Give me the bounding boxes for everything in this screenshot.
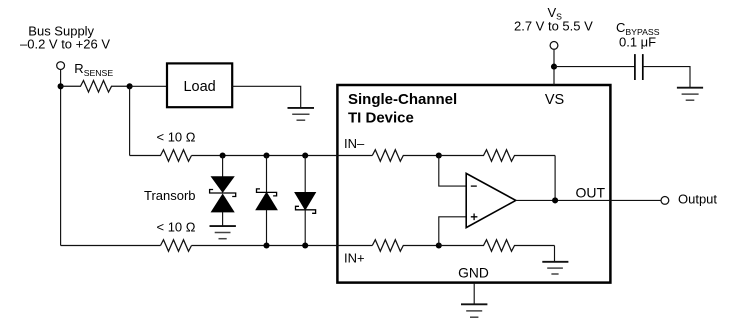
wire: diode D2 bottom lead — [266, 210, 268, 246]
transorb TVS: bottom diode triangle — [211, 194, 234, 212]
wire: transorb top lead — [222, 156, 224, 177]
ground: bypass cap ground — [677, 88, 703, 101]
resistor: < 10 ohm series (IN-) — [130, 150, 192, 162]
wire: diode D2 top lead — [266, 156, 268, 193]
wire: VS node to bypass cap — [554, 66, 635, 68]
junction: VS / bypass cap — [551, 64, 557, 70]
component: Single-Channel TI Device box — [337, 85, 610, 283]
wire: feedback down to output node — [554, 156, 556, 201]
svg-text:< 10 Ω: < 10 Ω — [157, 130, 196, 145]
terminal: Output — [661, 197, 669, 205]
resistor R_SENSE — [61, 81, 130, 93]
svg-text:0.1 μF: 0.1 μF — [619, 35, 656, 50]
wire: Load to ground — [232, 86, 301, 107]
junction: IN- / diode D2 — [263, 152, 269, 158]
svg-text:VS: VS — [545, 92, 564, 108]
wire: bias resistor down to ground — [554, 246, 556, 262]
junction: IN- / transorb — [220, 152, 226, 158]
component: Load box — [167, 63, 232, 107]
wire: sense node down to IN- line — [129, 86, 131, 155]
wire: GND pin to ground — [473, 283, 475, 304]
diode D3: triangle (pointing down) — [295, 192, 316, 209]
ground: transorb ground — [210, 226, 236, 239]
svg-text:IN–: IN– — [344, 136, 365, 151]
junction: IN+ / diode D3 — [302, 242, 308, 248]
resistor: < 10 ohm series (IN+) — [161, 240, 192, 252]
svg-text:RSENSE: RSENSE — [74, 61, 113, 78]
terminal: bus supply input — [57, 62, 65, 70]
junction: output node — [552, 197, 558, 203]
capacitor C_BYPASS plates — [635, 54, 643, 80]
svg-text:2.7 V to 5.5 V: 2.7 V to 5.5 V — [514, 19, 593, 34]
terminal: VS supply input — [550, 42, 558, 50]
wire: transorb to ground — [222, 212, 224, 226]
svg-text:Transorb: Transorb — [144, 188, 196, 203]
svg-text:< 10 Ω: < 10 Ω — [157, 220, 196, 235]
svg-text:TI Device: TI Device — [348, 110, 414, 127]
junction: IN- / diode D3 — [302, 152, 308, 158]
wire: IN- line into device — [192, 155, 373, 157]
ground: device GND — [461, 304, 487, 317]
wire: to Load box — [130, 85, 167, 87]
wire: inverting node down to op-amp - input — [439, 156, 466, 187]
wire: diode D3 bottom lead — [304, 210, 306, 246]
svg-text:Single-Channel: Single-Channel — [348, 91, 457, 108]
transorb TVS: top diode triangle — [211, 177, 234, 193]
wire: op-amp output to OUT pin — [516, 199, 611, 201]
diode D2: triangle (pointing up) — [256, 192, 277, 209]
svg-text:GND: GND — [458, 265, 489, 280]
svg-text:Load: Load — [183, 79, 215, 95]
resistor: IN- internal input resistor — [372, 150, 439, 162]
svg-text:IN+: IN+ — [344, 250, 365, 265]
transorb TVS: zener bar — [210, 190, 236, 197]
diode D3: zener bar — [296, 206, 316, 213]
ground: internal bias ground — [542, 262, 568, 274]
junction: R_SENSE / Load / IN- branch — [127, 83, 133, 89]
wire: bus left rail — [60, 70, 62, 246]
wire: non-inverting node up to op-amp + input — [439, 217, 466, 246]
op-amp U1: minus sign — [471, 185, 477, 187]
wire: OUT pin to output terminal — [611, 199, 661, 201]
svg-text:–0.2 V to +26 V: –0.2 V to +26 V — [20, 37, 110, 52]
ground: load ground — [288, 108, 315, 120]
resistor: IN+ internal input resistor — [372, 240, 439, 252]
junction: non-inverting input node — [436, 242, 442, 248]
wire: VS terminal to device — [553, 49, 555, 85]
resistor: feedback resistor — [439, 150, 555, 162]
junction: inverting input node — [436, 152, 442, 158]
wire: IN+ line from rail — [61, 245, 161, 247]
resistor: bias resistor to ground — [439, 240, 555, 252]
junction: bus rail / R_SENSE — [58, 83, 64, 89]
diode D2: zener bar — [257, 189, 277, 196]
wire: IN+ line into device — [192, 245, 373, 247]
svg-text:OUT: OUT — [575, 184, 605, 200]
wire: diode D3 top lead — [304, 156, 306, 193]
op-amp U1: plus sign — [471, 214, 478, 221]
wire: bypass cap to ground — [643, 67, 690, 88]
svg-text:Output: Output — [678, 191, 717, 206]
op-amp U1 — [466, 173, 516, 227]
junction: IN+ / diode D2 — [263, 242, 269, 248]
